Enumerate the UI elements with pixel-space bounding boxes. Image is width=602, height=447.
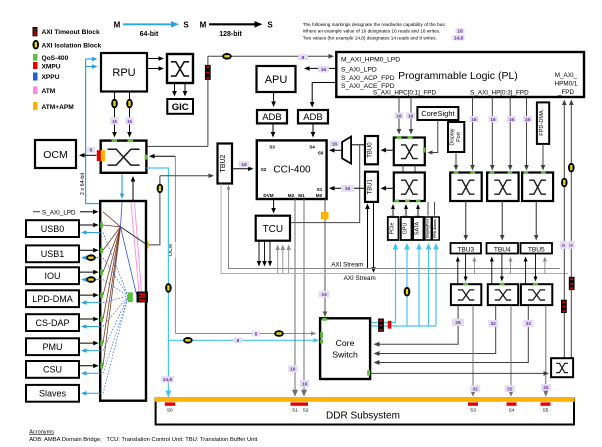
wire PL S_AXI_ACE_FPD to ADB	[312, 83, 336, 104]
AXI isolation block on IOU return	[86, 276, 96, 283]
block IOU	[26, 267, 79, 284]
svg-text:AXI Stream: AXI Stream	[344, 275, 376, 282]
svg-text:LPD-DMA: LPD-DMA	[32, 294, 73, 304]
wire RPU down right with isolation	[129, 91, 131, 122]
QoS-400 mark at LPD-DMA port	[100, 293, 103, 298]
switch DDR4 crossbar	[488, 284, 518, 305]
svg-text:XMPU: XMPU	[42, 63, 61, 70]
wire ADB to CCI S4	[312, 123, 314, 134]
svg-text:TBU2: TBU2	[220, 154, 227, 172]
svg-text:M0: M0	[316, 193, 323, 198]
svg-text:S_AXI_HP[0:3]_FPD: S_AXI_HP[0:3]_FPD	[470, 90, 529, 97]
cyan stream wires to FPD slaves	[370, 243, 439, 326]
XMPU mark at LPD switch OCM port	[97, 150, 101, 161]
wire PL M_AXI_HPM0_FPD down to small switch	[563, 102, 565, 358]
wire TBU3 down to lower switch	[465, 254, 467, 279]
wire PCIe up to switch	[392, 207, 394, 216]
block CSU	[26, 361, 79, 378]
wire USB0 to LPD interconnect	[79, 224, 95, 226]
wire switch to TBU0	[384, 149, 394, 151]
QoS-400 marks on LPD switch top	[112, 139, 118, 142]
wire AXI stream line 1 from TBU2	[229, 186, 561, 269]
wire ADB to CCI S3	[272, 123, 274, 134]
chip 8 on OCM wire	[87, 147, 95, 153]
DDR XMPU tick S4	[507, 402, 517, 405]
note chip 16	[456, 28, 465, 33]
svg-text:2 x 64-bit: 2 x 64-bit	[80, 172, 86, 195]
svg-text:S2: S2	[303, 408, 309, 414]
block SATA	[413, 217, 423, 240]
switch HP0 crossbar	[450, 173, 482, 202]
QoS-400 marks on HPC switch top	[397, 136, 402, 139]
TCU upstream arrows	[275, 245, 291, 274]
wire TCU sidechannel vertical	[290, 145, 360, 223]
TCU downstream arrows	[257, 241, 272, 267]
svg-text:16: 16	[127, 119, 132, 124]
svg-text:TBU3: TBU3	[457, 246, 474, 253]
DDR XMPU tick S1 S2	[291, 402, 309, 405]
block TBU1	[365, 172, 378, 202]
AXI isolation block on HPM0_FPD wire	[561, 178, 568, 188]
wire LPD interconnect to USB1 return	[84, 257, 100, 259]
wire mux to CCI S0	[332, 149, 342, 151]
AXI isolation block on HPM1_FPD wire	[568, 163, 575, 173]
svg-text:16: 16	[345, 186, 351, 192]
block ADB left	[257, 110, 287, 123]
svg-text:S_AXI_HPC[0:1]_FPD: S_AXI_HPC[0:1]_FPD	[373, 90, 436, 97]
wire lower switch 3 to Core Switch	[377, 305, 528, 362]
wire TBU5 down to lower switch	[535, 254, 537, 279]
svg-text:Port: Port	[456, 132, 462, 142]
wire stream up to TBU5	[544, 260, 546, 274]
svg-text:28: 28	[455, 320, 461, 326]
svg-text:S_AXI_ACP_FPD: S_AXI_ACP_FPD	[341, 75, 395, 82]
svg-text:M1: M1	[298, 193, 305, 198]
svg-text:Core: Core	[336, 338, 355, 348]
block LPD-DMA	[26, 290, 79, 307]
wire CS-DAP to LPD interconnect	[79, 318, 95, 320]
wire TBU0 to mux	[351, 144, 365, 146]
QoS-400 marks on Core Switch edges	[322, 318, 326, 321]
svg-text:S4: S4	[309, 144, 315, 149]
wire LPD interconnect to Slaves	[84, 392, 100, 394]
svg-text:M: M	[200, 21, 207, 30]
svg-text:ADB: ADB	[262, 112, 282, 123]
wire RPU-switch to GIC left	[174, 83, 176, 93]
svg-text:Programmable Logic (PL): Programmable Logic (PL)	[398, 70, 518, 82]
chip 16 on S_AXI_LPD	[318, 66, 329, 73]
note chip 14,8	[452, 35, 465, 40]
block OCM	[35, 140, 76, 168]
wire TBU1 down to stream	[373, 202, 375, 270]
wire PMU to LPD interconnect	[79, 342, 95, 344]
cyan wire LPD switch to DDR S0 and Core Switch	[146, 168, 168, 394]
wire LPD switch down to LPD interconnect cyan	[121, 175, 123, 196]
svg-text:16: 16	[525, 117, 531, 123]
QoS-400 mark at IOU port	[100, 270, 103, 275]
wire CoreSight to HPC switch	[432, 120, 438, 153]
wire TBU2 to CCI S2	[232, 168, 250, 170]
DDR XMPU tick S0	[165, 402, 175, 405]
svg-text:TBU0: TBU0	[368, 142, 374, 158]
block TBU0	[365, 136, 378, 164]
wire RPU to RPU-switch upper	[147, 58, 161, 60]
wire TBU1 to CCI S1	[332, 187, 365, 189]
chip 8 on HPM0 path	[298, 54, 308, 60]
wire stream up to TBU4	[510, 260, 512, 274]
wire PL HPC1 down to switch	[410, 98, 412, 132]
wire stream up into TBU1	[367, 207, 369, 269]
block TBU3	[451, 243, 482, 254]
svg-text:S1: S1	[317, 187, 323, 192]
QoS-400 marks on HPC lower switch bottom	[394, 200, 399, 203]
block GPU	[401, 217, 412, 240]
svg-text:DVM: DVM	[263, 193, 273, 198]
svg-text:PMU: PMU	[43, 342, 63, 352]
svg-text:AXI Timeout Block: AXI Timeout Block	[42, 29, 100, 36]
svg-text:AXI Stream: AXI Stream	[331, 262, 363, 269]
RPU-switch crossbar	[167, 54, 193, 83]
wire LPD interconnect to CSU return	[84, 372, 100, 374]
switch HP1 crossbar	[487, 173, 518, 202]
svg-text:TBU4: TBU4	[494, 246, 511, 253]
QoS-400 mark at USB1 port	[100, 248, 103, 253]
wire SATA up to switch	[417, 207, 419, 216]
svg-text:14,8: 14,8	[163, 377, 173, 383]
svg-text:16: 16	[408, 113, 414, 119]
svg-text:16: 16	[561, 244, 565, 248]
block TCU	[256, 216, 290, 241]
switch HPC upper crossbar	[394, 138, 425, 166]
svg-text:IOU: IOU	[44, 271, 60, 281]
switch DDR5 crossbar	[521, 284, 552, 305]
svg-text:SATA: SATA	[415, 221, 421, 235]
AXI timeout block on HPM0_FPD wire	[561, 300, 567, 313]
wire FPD-DMA down to switch	[542, 144, 544, 167]
svg-text:Where an example value of 16 d: Where an example value of 16 designates …	[303, 29, 441, 34]
chip 32 on S3 wire	[470, 385, 480, 392]
svg-text:M_AXI_: M_AXI_	[555, 72, 578, 79]
svg-text:TBU1: TBU1	[368, 178, 374, 194]
svg-text:128-bit: 128-bit	[219, 31, 242, 38]
svg-text:16: 16	[457, 29, 463, 35]
AXI isolation block on cyan CoreSwitch branch	[183, 337, 193, 344]
svg-text:8: 8	[302, 55, 305, 61]
LPD main switch crossbar	[101, 141, 147, 173]
svg-text:32: 32	[507, 386, 513, 392]
chip 16 on S0 wire	[330, 141, 340, 147]
chips 16 on HP wires	[470, 116, 533, 123]
wire PL M_AXI_HPM1_FPD down to small switch	[570, 102, 572, 358]
wire lower switch up to TBU5	[525, 260, 527, 285]
wire PL S_AXI_LPD out	[307, 67, 336, 69]
svg-text:16: 16	[302, 381, 308, 387]
block PMU	[26, 338, 79, 355]
svg-text:S3: S3	[470, 408, 476, 414]
svg-text:USB1: USB1	[41, 249, 65, 259]
svg-text:16: 16	[332, 142, 338, 148]
svg-text:16: 16	[490, 117, 496, 123]
wire RPU-switch to GIC right	[184, 83, 186, 93]
chip 16 on S1 wire	[341, 185, 354, 192]
switch DDR3 crossbar	[451, 284, 481, 305]
svg-text:S1: S1	[292, 408, 298, 414]
AXI timeout block at Core Switch stream input	[378, 319, 384, 332]
wire OCM net from LPD switch right to Core Switch	[152, 155, 175, 157]
AXI isolation block on OCM-CoreSwitch wire	[274, 330, 284, 337]
svg-text:DisplayPort: DisplayPort	[425, 218, 429, 238]
block CS-DAP	[26, 314, 79, 331]
wires HP switches down to TBU345	[463, 201, 538, 241]
wire CCI M0 to Core Switch	[324, 199, 326, 213]
QoS-400 mark at PMU port	[100, 341, 103, 346]
legend AXI Isolation Block icon	[33, 40, 40, 50]
block CoreSight	[417, 107, 458, 120]
chip 32 on S4 wire	[505, 385, 515, 392]
wire PL HPC0 down to switch	[398, 98, 400, 132]
wire LPD switch to OCM	[82, 154, 96, 156]
CCI port labels	[261, 144, 324, 198]
wire RPU down left with isolation	[114, 91, 116, 122]
block Slaves strip	[432, 217, 439, 240]
block FPD-DMA	[537, 102, 549, 143]
svg-text:S0: S0	[167, 408, 173, 414]
block GPU/TCU slave strip	[425, 217, 432, 240]
legend QoS-400 icon	[33, 54, 38, 61]
svg-text:S0: S0	[318, 150, 324, 155]
switch HP2 crossbar	[522, 173, 553, 202]
wire Core Switch to small DDR switch	[370, 372, 546, 374]
svg-text:64-bit: 64-bit	[140, 31, 159, 38]
svg-text:PCIe: PCIe	[389, 223, 395, 235]
block APU	[257, 66, 296, 92]
block Display Port	[448, 122, 464, 152]
svg-text:FPD Slaves: FPD Slaves	[433, 219, 437, 238]
wire USB1 to LPD interconnect	[79, 249, 95, 251]
svg-text:16: 16	[569, 244, 573, 248]
wire lower switch 1 to Core Switch	[377, 305, 458, 344]
svg-text:_FPD: _FPD	[557, 89, 575, 96]
AXI isolation block on TBU2 wire	[157, 184, 164, 194]
QoS-400 marks on HP switch tops	[454, 171, 546, 174]
QoS-400 marks on lower switch tops	[463, 283, 468, 286]
svg-text:CS-DAP: CS-DAP	[35, 318, 69, 328]
chip 16 on M1 wire	[300, 380, 310, 387]
wire S_AXI_LPD into LPD interconnect	[33, 211, 40, 213]
svg-text:16: 16	[321, 292, 327, 298]
svg-text:S5: S5	[543, 408, 549, 414]
legend XPPU icon	[33, 73, 38, 81]
chip 16 on HPC0	[395, 112, 404, 118]
wires PL S_AXI_HP down	[470, 98, 529, 171]
svg-text:Slaves: Slaves	[39, 389, 67, 399]
wires between HPC switches	[402, 165, 404, 172]
chip 16 on TBU2-S2 wire	[239, 161, 250, 167]
wire lower switch up to TBU3	[457, 260, 459, 285]
wire LPD interconnect to IOU return	[84, 279, 100, 281]
block ADB right	[298, 110, 328, 123]
svg-text:RPU: RPU	[112, 67, 135, 79]
chip 16 on M2 wire	[288, 365, 298, 372]
QoS-400 mark on LPD switch right	[145, 155, 148, 160]
wire lower switch 3 to DDR S5	[545, 305, 547, 393]
svg-text:32: 32	[543, 385, 549, 391]
wire lower switch 2 to Core Switch	[377, 305, 496, 353]
block GIC	[167, 99, 193, 114]
svg-text:Acronyms: Acronyms	[29, 429, 54, 435]
legend XMPU icon	[33, 62, 38, 69]
LPD interconnect fan wires	[103, 203, 145, 394]
DDR XMPU tick S5	[541, 402, 551, 405]
chip 32 first	[488, 320, 498, 327]
block USB1	[26, 245, 79, 262]
chip 14,8 on cyan S0 wire	[161, 376, 174, 383]
wire APU to ADB	[273, 92, 275, 104]
wire LPD-DMA to LPD interconnect	[79, 294, 95, 296]
svg-text:16: 16	[112, 119, 117, 124]
legend AXI Timeout Block icon	[33, 27, 38, 36]
block TBU5	[521, 243, 553, 254]
svg-text:Display: Display	[450, 128, 456, 145]
ATM+APM mark on LPD interconnect right edge	[142, 242, 149, 249]
wire LPD interconnect to USB0 return	[84, 232, 100, 234]
DDR port labels	[167, 408, 549, 414]
small DDR switch crossbar	[551, 358, 573, 377]
wire LPD interconnect to CS-DAP return	[84, 326, 100, 328]
wire GPU up to switch	[405, 207, 407, 216]
chip 16 on HPC1	[406, 112, 415, 118]
QoS-400 mark at USB0 port	[100, 222, 103, 227]
block CCI-400	[257, 140, 327, 199]
wire LPD interconnect to LPD-DMA return	[84, 302, 100, 304]
chip 32 on S5 wire	[541, 384, 551, 391]
svg-text:TCU: TCU	[263, 224, 284, 235]
svg-text:S_AXI_LPD: S_AXI_LPD	[341, 66, 377, 73]
svg-text:32: 32	[473, 386, 479, 392]
wire lower switch 1 to DDR S3	[472, 305, 474, 393]
svg-text:S4: S4	[509, 408, 515, 414]
svg-text:14,8: 14,8	[454, 36, 464, 42]
block DDR Subsystem	[156, 399, 574, 425]
chip 28	[452, 319, 464, 326]
wire stream up to TBU3	[473, 260, 475, 274]
wire LPD interconnect up to LPD switch	[132, 179, 134, 201]
QoS-400 mark on HPC switch right	[423, 148, 426, 153]
chip 8 on OCM-CoreSwitch wire	[252, 331, 260, 337]
wire CSU to LPD interconnect	[79, 365, 95, 367]
svg-text:16: 16	[471, 117, 477, 123]
svg-text:ADB: ADB	[303, 112, 323, 123]
block RPU	[101, 53, 147, 92]
svg-text:CSU: CSU	[43, 365, 62, 375]
svg-text:S2: S2	[261, 167, 267, 172]
legend ATM+APM icon	[33, 102, 38, 110]
ATM+APM mark at LPD switch OCM port	[101, 150, 105, 161]
svg-text:DDR Subsystem: DDR Subsystem	[326, 410, 400, 421]
wire AXI stream line 2 to TBU2	[221, 184, 568, 274]
svg-text:Switch: Switch	[332, 350, 358, 360]
AXI isolation block on HPM0 path	[222, 53, 232, 60]
wire lower switch up to TBU4	[491, 260, 493, 285]
chips 16 16 on HPM wires	[560, 241, 567, 249]
mux trapezoid into CCI S0	[342, 137, 351, 164]
svg-text:XPPU: XPPU	[42, 74, 60, 81]
svg-text:32: 32	[526, 321, 532, 327]
chip 32 second	[523, 320, 533, 327]
svg-text:16: 16	[509, 117, 515, 123]
wire CCI M2 to DDR S1	[294, 199, 296, 393]
block Core Switch	[320, 318, 370, 379]
AXI isolation block on USB1 return	[86, 254, 96, 261]
block Slaves	[26, 385, 79, 402]
wire LPD interconnect to PMU return	[84, 350, 100, 352]
QoS-400 mark in LPD interconnect cluster	[128, 292, 133, 302]
svg-text:QoS-400: QoS-400	[42, 55, 69, 62]
svg-text:APU: APU	[265, 74, 288, 86]
svg-text:Two values (for example 14,8): Two values (for example 14,8) designates…	[303, 36, 437, 41]
QoS-400 marks on slave boxes	[390, 216, 395, 218]
wire TBU4 down to lower switch	[501, 254, 503, 279]
AXI isolation block on cyan S0 wire	[165, 283, 172, 293]
switch HPC lower crossbar	[394, 173, 425, 202]
block PCIe	[388, 217, 399, 240]
AXI timeout block on HPM1_FPD wire	[569, 277, 575, 290]
AXI isolation block on GPU cyan wire	[404, 287, 411, 297]
svg-text:16: 16	[290, 367, 296, 373]
svg-text:GIC: GIC	[172, 102, 189, 113]
block TBU4	[487, 243, 519, 254]
wire CCI DVM to TCU	[273, 199, 275, 210]
LPD interconnect block	[100, 201, 146, 401]
svg-text:S: S	[183, 21, 189, 30]
QoS-400 mark at CS-DAP port	[100, 316, 103, 321]
svg-text:OCM: OCM	[43, 149, 68, 161]
wire LPD switch to PL M_AXI_HPM0_LPD via timeout block	[146, 145, 208, 147]
svg-text:M_AXI_HPM0_LPD: M_AXI_HPM0_LPD	[341, 56, 400, 63]
svg-text:16: 16	[321, 67, 327, 73]
svg-text:S_AXI_LPD: S_AXI_LPD	[42, 209, 76, 216]
DDR XMPU tick S3	[468, 402, 478, 405]
wires slave boxes up to switch	[427, 202, 429, 216]
wire RPU to RPU-switch lower	[147, 68, 161, 70]
wire CCI M1 to DDR S2	[303, 199, 305, 393]
block TBU2	[218, 144, 233, 184]
svg-text:16: 16	[396, 113, 402, 119]
svg-text:GPU: GPU	[402, 223, 408, 235]
svg-text:TBU5: TBU5	[528, 246, 545, 253]
svg-text:The following markings designa: The following markings designate the rea…	[303, 22, 446, 27]
wire IOU to LPD interconnect	[79, 271, 95, 273]
svg-text:ATM+APM: ATM+APM	[42, 104, 75, 111]
svg-text:CoreSight: CoreSight	[421, 109, 455, 118]
AXI timeout block on HPM0 path	[205, 65, 211, 80]
block USB0	[26, 220, 79, 237]
svg-text:ATM: ATM	[42, 88, 56, 95]
wire LPD to TBU2 via isolation	[149, 176, 160, 245]
svg-text:FPD-DMA: FPD-DMA	[539, 110, 545, 136]
QoS-400 mark at CSU port	[100, 363, 103, 368]
legend ATM icon	[33, 87, 38, 95]
wire lower switch 2 to DDR S4	[510, 305, 512, 393]
svg-text:HPM0/1: HPM0/1	[555, 81, 578, 88]
chip 8 on cyan CoreSwitch branch	[234, 337, 242, 343]
block Programmable Logic PL	[336, 52, 584, 97]
AXI timeout block in LPD interconnect cluster	[137, 292, 149, 303]
XMPU mark at Core Switch stream input	[388, 321, 392, 329]
chip 16 on M0 wire	[319, 291, 330, 298]
ATM+APM mark on M0 wire	[321, 212, 329, 219]
svg-text:M2: M2	[288, 193, 295, 198]
